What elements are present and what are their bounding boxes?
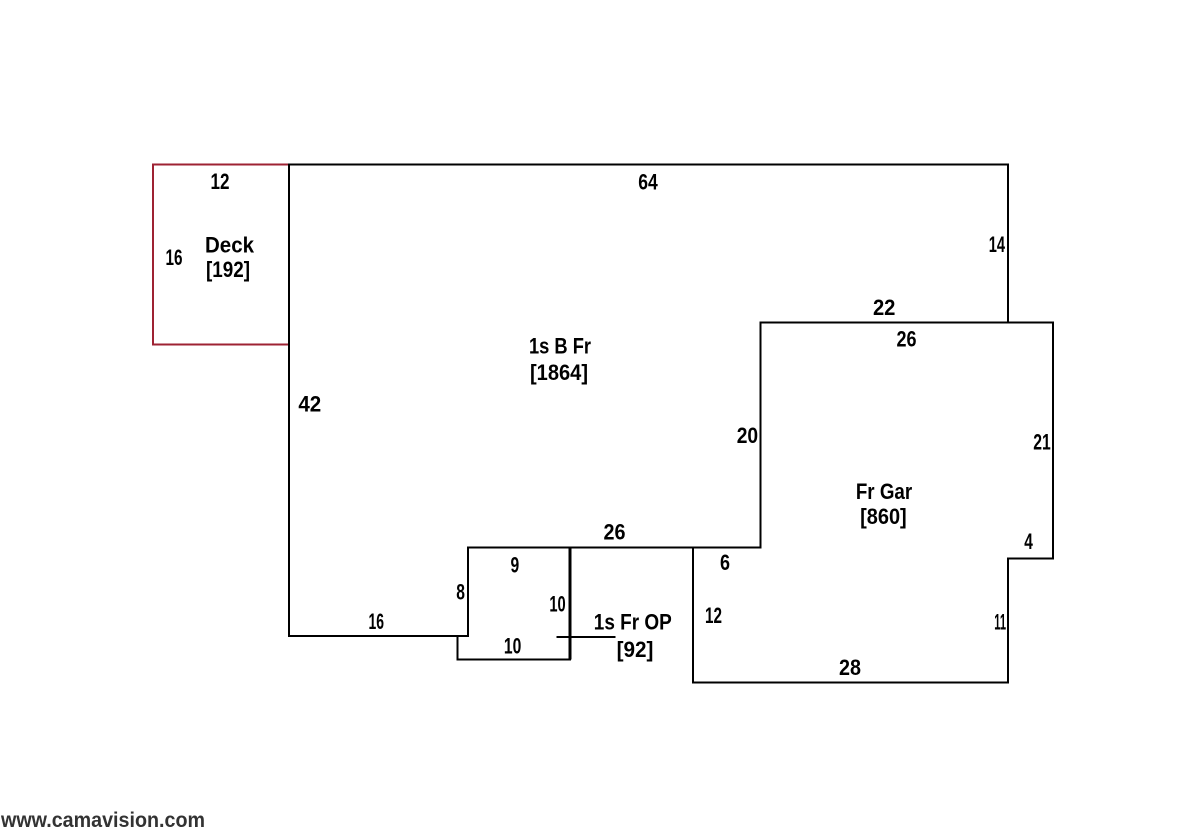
main building outline 1s B Fr	[289, 165, 1008, 637]
open porch outline 1s Fr OP	[458, 548, 571, 660]
open porch right wall (thick)	[569, 548, 572, 660]
svg-text:11: 11	[994, 609, 1006, 634]
svg-text:14: 14	[989, 232, 1006, 257]
svg-text:42: 42	[298, 392, 321, 417]
svg-text:22: 22	[873, 295, 896, 320]
svg-text:9: 9	[510, 552, 519, 577]
svg-text:10: 10	[504, 634, 521, 659]
svg-text:12: 12	[705, 603, 722, 628]
svg-text:[1864]: [1864]	[530, 360, 588, 385]
svg-text:[192]: [192]	[206, 257, 250, 282]
svg-text:12: 12	[211, 169, 230, 194]
svg-text:26: 26	[604, 520, 626, 545]
svg-text:[860]: [860]	[860, 504, 907, 529]
leader line to 1s Fr OP label	[557, 636, 616, 638]
svg-text:64: 64	[638, 170, 658, 195]
svg-text:Deck: Deck	[205, 233, 255, 258]
svg-text:16: 16	[369, 609, 385, 634]
svg-text:26: 26	[897, 327, 917, 352]
svg-text:28: 28	[839, 655, 861, 680]
svg-text:Fr Gar: Fr Gar	[856, 479, 913, 504]
svg-text:16: 16	[166, 245, 183, 270]
svg-text:20: 20	[737, 423, 758, 448]
svg-text:4: 4	[1024, 529, 1033, 554]
svg-text:1s B Fr: 1s B Fr	[529, 334, 591, 359]
svg-text:6: 6	[720, 550, 730, 575]
deck outline (red)	[153, 165, 289, 345]
svg-text:21: 21	[1033, 430, 1051, 455]
svg-text:1s Fr OP: 1s Fr OP	[594, 610, 672, 635]
svg-text:10: 10	[549, 591, 565, 616]
garage outline Fr Gar	[693, 323, 1053, 683]
svg-text:[92]: [92]	[617, 637, 654, 662]
svg-text:www.camavision.com: www.camavision.com	[0, 809, 205, 832]
svg-text:8: 8	[456, 579, 465, 604]
